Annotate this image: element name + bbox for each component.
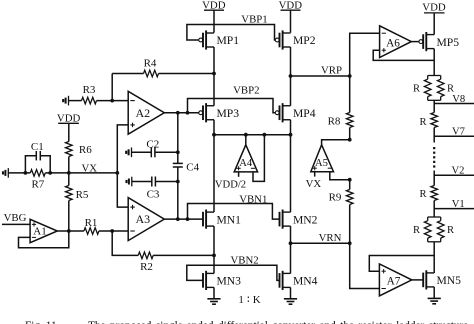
svg-text:VBP1: VBP1 bbox=[241, 13, 267, 25]
svg-text:R2: R2 bbox=[140, 261, 153, 273]
transistor MP3 bbox=[199, 103, 214, 122]
svg-text:R5: R5 bbox=[76, 189, 89, 201]
wire MN2 source to MN4 drain bbox=[290, 226, 292, 273]
svg-text:A6: A6 bbox=[386, 37, 400, 49]
power VDD symbol over MP5 bbox=[424, 13, 445, 35]
wire MN1 source to MN3 drain bbox=[213, 226, 215, 273]
svg-text:VRP: VRP bbox=[321, 65, 342, 77]
wire A4 common rail bbox=[214, 134, 291, 136]
wire MN4 source to ground bbox=[290, 287, 292, 298]
node VRP right bbox=[348, 74, 352, 78]
svg-text:R: R bbox=[413, 84, 421, 95]
op-amp A6 bbox=[380, 26, 412, 58]
resistor R1 bbox=[69, 228, 112, 235]
resistor pair R||R bottom bbox=[424, 217, 444, 242]
svg-text:A7: A7 bbox=[387, 276, 401, 288]
wire A2+/A3+ inputs to VX bbox=[117, 125, 128, 207]
op-amp A3 bbox=[128, 198, 164, 241]
node A2 output / C4 tap bbox=[176, 111, 180, 115]
net VX wire with AC ground bbox=[3, 168, 117, 178]
svg-text:C4: C4 bbox=[186, 161, 199, 173]
node rail left bbox=[212, 133, 216, 137]
wire A7 inverting input from VRN bbox=[350, 243, 380, 288]
wire ladder V2 section bbox=[433, 171, 435, 186]
svg-text:VRN: VRN bbox=[319, 232, 342, 244]
svg-text:R: R bbox=[413, 225, 421, 236]
svg-text:VBP2: VBP2 bbox=[233, 84, 259, 96]
svg-text:MN3: MN3 bbox=[217, 275, 242, 288]
node VRN right bbox=[348, 241, 352, 245]
svg-text:VDD/2: VDD/2 bbox=[215, 180, 246, 191]
node VRP left bbox=[289, 74, 293, 78]
resistor R8 bbox=[346, 76, 353, 140]
net VBP1 wire (MP1 gate to MP2 gate) bbox=[187, 25, 275, 41]
svg-text:R4: R4 bbox=[144, 58, 157, 70]
wire A6 inverting input from VRP bbox=[350, 33, 380, 76]
wire ladder V7 section bbox=[433, 128, 435, 143]
node A2 output / VBP2 tap bbox=[186, 111, 190, 115]
svg-text:R1: R1 bbox=[85, 217, 98, 229]
svg-text:R7: R7 bbox=[31, 179, 44, 191]
node A3 inverting input junction bbox=[110, 229, 114, 233]
node rail A4 feedback bbox=[263, 133, 267, 137]
svg-text:C1: C1 bbox=[31, 141, 44, 153]
svg-text:C2: C2 bbox=[146, 139, 159, 151]
wire A2 output to MP3 gate bbox=[164, 112, 199, 114]
resistor R3 with AC ground bbox=[63, 96, 128, 106]
node MN1 source / R2 junction bbox=[212, 254, 216, 258]
svg-text:VDD: VDD bbox=[279, 0, 303, 12]
wire A3 output to MN1 gate bbox=[164, 218, 203, 220]
wire A6 output to MP5 gate bbox=[411, 41, 419, 43]
resistor R6 bbox=[66, 142, 73, 173]
ground under MN3 bbox=[207, 299, 220, 304]
node rail right bbox=[289, 133, 293, 137]
ladder ellipsis dots bbox=[433, 147, 435, 168]
svg-text:1∶K: 1∶K bbox=[238, 294, 263, 306]
svg-text:MN2: MN2 bbox=[293, 213, 318, 226]
svg-text:V8: V8 bbox=[452, 94, 465, 105]
node C2 tap bbox=[176, 150, 180, 154]
wire R1 to A3 inverting input bbox=[112, 230, 128, 232]
node A5 feedback on column bbox=[348, 178, 352, 182]
svg-text:R8: R8 bbox=[328, 116, 341, 128]
svg-text:A4: A4 bbox=[239, 158, 253, 169]
svg-text:MP1: MP1 bbox=[217, 34, 240, 47]
net VRP wire bbox=[291, 75, 350, 77]
op-amp A1 bbox=[30, 219, 57, 242]
capacitor C3 with AC ground bbox=[127, 177, 178, 187]
node A3 output / VBN1 tap bbox=[186, 217, 190, 221]
svg-text:MP5: MP5 bbox=[437, 36, 460, 49]
wire MN3 source to ground bbox=[213, 287, 215, 298]
node MP1 drain / R4 junction bbox=[212, 72, 216, 76]
svg-text:MP3: MP3 bbox=[217, 107, 240, 120]
transistor MN5 bbox=[423, 270, 434, 289]
svg-text:MN5: MN5 bbox=[437, 274, 462, 287]
svg-text:A3: A3 bbox=[135, 212, 150, 226]
node A3 output / C4 tap bbox=[176, 217, 180, 221]
resistor R4 wire bbox=[112, 70, 214, 100]
svg-text:Fig. 11The proposed single-end: Fig. 11The proposed single-ended differe… bbox=[25, 320, 468, 324]
svg-text:MN1: MN1 bbox=[217, 213, 242, 226]
resistor R9 bbox=[346, 180, 353, 244]
svg-text:R9: R9 bbox=[329, 191, 342, 203]
svg-text:R: R bbox=[447, 225, 455, 236]
wire A1 feedback loop bbox=[19, 231, 69, 248]
svg-text:VBN1: VBN1 bbox=[239, 193, 267, 205]
svg-text:MN4: MN4 bbox=[293, 275, 318, 288]
transistor MN4 bbox=[280, 271, 291, 290]
ground under MN5 bbox=[428, 298, 441, 303]
wire A6 feedback from MP5 drain bbox=[373, 50, 434, 60]
wire MP1 drain to MP3 source bbox=[213, 47, 215, 106]
transistor MN3 bbox=[203, 271, 214, 290]
wire MP3 drain down to MN1 drain bbox=[213, 120, 215, 212]
node C3 tap bbox=[176, 180, 180, 184]
power VDD symbol over MP1 bbox=[204, 10, 224, 33]
capacitor C1 branch bbox=[25, 151, 50, 173]
net VBP2 wire to MP4 gate bbox=[188, 99, 276, 113]
resistor R5 bbox=[66, 173, 73, 231]
capacitor C2 with AC ground bbox=[126, 147, 178, 157]
op-amp A5 buffer bbox=[311, 140, 350, 180]
capacitor C4 (vertical) bbox=[173, 113, 183, 219]
op-amp A4 buffer bbox=[234, 135, 264, 182]
node rail A4 output bbox=[244, 133, 248, 137]
svg-text:R6: R6 bbox=[79, 144, 92, 156]
svg-text:MP4: MP4 bbox=[293, 107, 316, 120]
svg-text:R3: R3 bbox=[83, 84, 96, 96]
svg-text:VX: VX bbox=[81, 162, 97, 174]
svg-text:VDD: VDD bbox=[57, 113, 81, 125]
svg-text:VDD: VDD bbox=[422, 2, 446, 14]
resistor R2 bbox=[112, 231, 214, 259]
tap V1 wire bbox=[434, 208, 474, 210]
wire ladder V8 section bbox=[433, 100, 435, 112]
resistor R (V2-V1) bbox=[431, 186, 438, 201]
svg-text:VX: VX bbox=[306, 178, 322, 190]
transistor MP2 bbox=[275, 30, 290, 49]
svg-text:VBG: VBG bbox=[4, 212, 27, 224]
transistor MP5 bbox=[419, 32, 434, 51]
svg-text:C3: C3 bbox=[147, 189, 160, 201]
tap V2 wire bbox=[434, 174, 474, 176]
svg-text:R: R bbox=[419, 189, 427, 200]
tap V7 wire bbox=[434, 135, 474, 137]
node A2 inverting input junction bbox=[110, 99, 114, 103]
svg-text:A1: A1 bbox=[33, 226, 46, 238]
node A1 output junction bbox=[67, 229, 71, 233]
transistor MP4 bbox=[275, 103, 290, 122]
transistor MN1 bbox=[203, 210, 214, 229]
op-amp A7 bbox=[379, 264, 411, 296]
node C1/R7 right bbox=[48, 171, 52, 175]
ground under MN4 bbox=[284, 299, 297, 304]
node C1/R7 left bbox=[24, 171, 28, 175]
wire A7 output to MN5 gate bbox=[412, 279, 423, 281]
wire MP4 drain down to MN2 drain bbox=[290, 120, 292, 212]
svg-text:V1: V1 bbox=[452, 199, 465, 210]
tap V8 wire bbox=[434, 103, 474, 105]
svg-text:V2: V2 bbox=[452, 166, 465, 177]
svg-text:R: R bbox=[419, 117, 427, 128]
node VX / R6 / R5 bbox=[67, 171, 71, 175]
node VX / amplifier inputs bbox=[115, 171, 119, 175]
wire A7 feedback from MN5 drain bbox=[369, 256, 434, 272]
node VRN left bbox=[289, 241, 293, 245]
net VBN1 wire to MN2 gate bbox=[188, 204, 280, 220]
wire MN5 source to ground bbox=[433, 287, 435, 299]
wire A1 output bbox=[57, 230, 69, 232]
transistor MN2 bbox=[280, 210, 291, 229]
power VDD symbol over MP2 bbox=[281, 10, 301, 33]
wire ladder bottom to MN5 drain bbox=[433, 242, 435, 273]
op-amp A2 bbox=[128, 91, 164, 134]
wire ladder V1 section bbox=[433, 201, 435, 218]
wire MP2 drain to MP4 source bbox=[290, 47, 292, 106]
power VDD symbol over R6 bbox=[58, 123, 79, 141]
svg-text:A5: A5 bbox=[315, 158, 328, 169]
svg-text:VBN2: VBN2 bbox=[230, 254, 258, 266]
node A5 output on R8/R9 column bbox=[348, 138, 352, 142]
transistor MP1 bbox=[199, 30, 214, 49]
wire MP5 drain to ladder bbox=[433, 49, 435, 76]
resistor pair R||R top bbox=[424, 76, 444, 101]
svg-text:A2: A2 bbox=[135, 106, 150, 120]
svg-text:VDD: VDD bbox=[202, 0, 226, 12]
net VBN2 wire (MN3 gate to MN4 gate) bbox=[187, 265, 280, 280]
svg-text:MP2: MP2 bbox=[293, 34, 316, 47]
wire VBG to A1 input bbox=[2, 223, 30, 225]
resistor R (V8-V7) bbox=[431, 113, 438, 128]
net VRN wire bbox=[291, 242, 350, 244]
svg-text:V7: V7 bbox=[452, 127, 465, 138]
